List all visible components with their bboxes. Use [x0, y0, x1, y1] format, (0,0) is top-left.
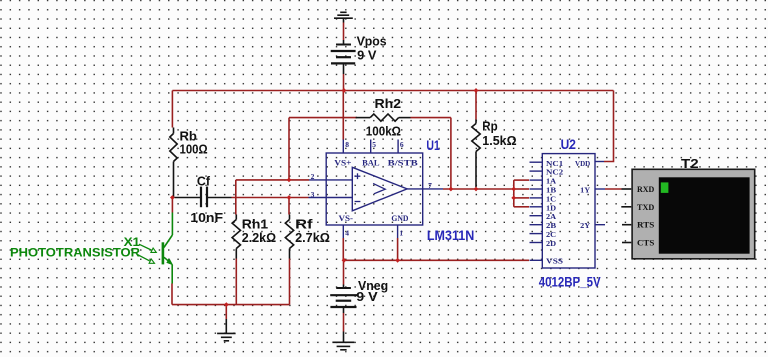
svg-text:1.5kΩ: 1.5kΩ	[482, 133, 516, 148]
svg-text:NC1: NC1	[546, 159, 563, 168]
svg-text:TXD: TXD	[637, 203, 655, 212]
svg-text:T2: T2	[681, 156, 699, 171]
svg-text:2.2kΩ: 2.2kΩ	[242, 230, 276, 245]
svg-text:RTS: RTS	[637, 221, 655, 230]
svg-text:2Y: 2Y	[580, 221, 591, 230]
svg-text:U1: U1	[426, 138, 440, 153]
svg-text:8: 8	[345, 140, 349, 149]
svg-text:1B: 1B	[546, 186, 556, 195]
svg-text:GND: GND	[391, 214, 408, 223]
svg-text:VS-: VS-	[339, 214, 354, 223]
svg-text:NC2: NC2	[546, 168, 563, 177]
svg-text:Rp: Rp	[482, 119, 497, 134]
svg-text:2: 2	[311, 172, 315, 181]
svg-text:2.7kΩ: 2.7kΩ	[295, 230, 330, 245]
svg-text:CTS: CTS	[637, 239, 655, 248]
svg-text:100kΩ: 100kΩ	[366, 123, 401, 138]
svg-text:6: 6	[400, 140, 404, 149]
svg-text:VS+: VS+	[334, 158, 352, 167]
svg-text:B/STB: B/STB	[388, 158, 419, 167]
svg-text:1Y: 1Y	[580, 186, 591, 195]
svg-text:LM311N: LM311N	[427, 228, 474, 243]
svg-text:1: 1	[399, 229, 403, 238]
svg-text:BAL: BAL	[362, 158, 380, 167]
svg-text:1A: 1A	[546, 177, 557, 186]
svg-text:7: 7	[428, 181, 432, 190]
svg-text:Rh2: Rh2	[375, 96, 402, 111]
svg-text:2C: 2C	[546, 230, 556, 239]
svg-text:5: 5	[372, 140, 376, 149]
svg-text:VSS: VSS	[546, 257, 563, 266]
svg-text:Vpos: Vpos	[357, 34, 387, 49]
svg-text:Cf: Cf	[197, 174, 211, 189]
svg-text:4: 4	[345, 229, 349, 238]
svg-text:U2: U2	[561, 137, 576, 152]
svg-text:10nF: 10nF	[190, 210, 223, 225]
svg-text:1D: 1D	[546, 203, 557, 212]
svg-text:VDD: VDD	[575, 159, 591, 168]
svg-text:3: 3	[311, 190, 315, 199]
svg-text:1C: 1C	[546, 194, 556, 203]
svg-text:2B: 2B	[546, 221, 556, 230]
svg-text:RXD: RXD	[637, 185, 655, 194]
svg-text:2A: 2A	[546, 212, 557, 221]
svg-text:PHOTOTRANSISTOR: PHOTOTRANSISTOR	[10, 245, 141, 259]
svg-text:4012BP_5V: 4012BP_5V	[539, 275, 601, 290]
svg-text:9 V: 9 V	[356, 289, 378, 304]
svg-text:9 V: 9 V	[357, 48, 377, 63]
svg-text:100Ω: 100Ω	[180, 142, 208, 157]
svg-text:2D: 2D	[546, 239, 557, 248]
